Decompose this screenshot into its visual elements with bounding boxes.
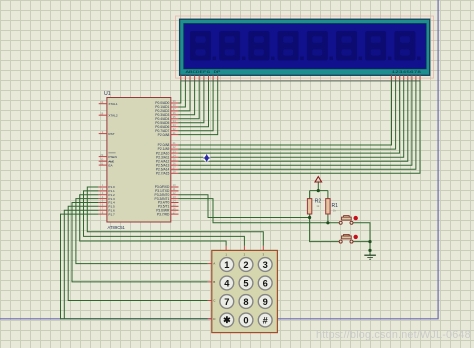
svg-text:5: 5: [243, 278, 248, 288]
svg-text:22: 22: [173, 145, 176, 149]
key ✱: [220, 313, 234, 327]
svg-text:P3.7/RD: P3.7/RD: [157, 212, 170, 216]
svg-text:23: 23: [173, 149, 176, 153]
push button 2 (to P3.2): [339, 234, 358, 243]
junction node: P3.2 / R2 / button2: [308, 216, 311, 219]
svg-text:AT89C51: AT89C51: [108, 225, 126, 230]
svg-text:17: 17: [173, 210, 176, 214]
svg-text:18: 18: [100, 111, 103, 115]
svg-text:16: 16: [173, 206, 176, 210]
svg-text:✱: ✱: [223, 315, 231, 325]
display ghost digits (faint 8.8.8... pattern): [190, 31, 421, 61]
display selection highlight box: [176, 16, 434, 78]
display pin stubs: [181, 75, 420, 79]
svg-text:26: 26: [173, 161, 176, 165]
svg-text:31: 31: [100, 161, 103, 165]
keypad row pin stubs (A-D): [208, 264, 212, 319]
svg-text:U1: U1: [104, 91, 111, 97]
power symbol VCC (up arrow): [315, 177, 322, 182]
ground symbol: [364, 255, 376, 259]
svg-text:1k: 1k: [333, 209, 337, 213]
wire: P3.2/INT0 to resistor R2 / button node: [179, 195, 310, 218]
wire: button2 output joining ground rail: [353, 241, 370, 243]
wire: R1 bottom to button1 (junction): [327, 214, 329, 223]
svg-text:P1.7: P1.7: [108, 212, 115, 216]
key 2: [239, 258, 253, 272]
svg-text:21: 21: [173, 141, 176, 145]
wire bus: P2.0-P2.7 to display digit select pins 1-8: [179, 79, 421, 173]
svg-text:29: 29: [100, 153, 103, 157]
svg-text:4: 4: [224, 278, 230, 288]
mcu PSEN/EA overlines: [108, 153, 115, 162]
svg-text:0: 0: [243, 315, 248, 325]
keypad body: [212, 250, 278, 332]
key 5: [239, 276, 253, 290]
svg-text:34: 34: [173, 119, 176, 123]
svg-text:36: 36: [173, 111, 176, 115]
resistor R2 body: [307, 199, 311, 214]
svg-text:8: 8: [243, 297, 248, 307]
key 8: [239, 295, 253, 309]
svg-text:#: #: [263, 315, 268, 325]
svg-text:3: 3: [263, 260, 268, 270]
key 6: [258, 276, 272, 290]
svg-text:33: 33: [173, 123, 176, 127]
wire: VCC rail to R1 R2 tops: [310, 181, 328, 198]
svg-text:24: 24: [173, 153, 176, 157]
svg-text:15: 15: [173, 203, 176, 207]
svg-text:27: 27: [173, 166, 176, 170]
display pin name labels (segment names and digit numbers): [186, 71, 422, 75]
svg-text:35: 35: [173, 115, 176, 119]
mcu right pin name labels: [155, 101, 170, 216]
key 3: [258, 258, 272, 272]
svg-text:XTAL1: XTAL1: [108, 102, 118, 106]
svg-text:10: 10: [173, 183, 176, 187]
mcu left pin numbers: [100, 100, 104, 214]
svg-text:14: 14: [173, 199, 176, 203]
mcu right pin stubs: [171, 103, 179, 214]
svg-text:19: 19: [100, 100, 103, 104]
svg-text:38: 38: [173, 103, 176, 107]
svg-text:A: A: [213, 262, 215, 266]
wire bus: P0.0-P0.7 to display segment pins A-DP: [179, 79, 218, 134]
svg-text:11: 11: [173, 187, 176, 191]
push button 1 (to P3.3): [339, 216, 358, 225]
key 0: [239, 313, 253, 327]
svg-text:12: 12: [173, 191, 176, 195]
svg-text:ABCDEFG DP: ABCDEFG DP: [186, 71, 221, 75]
mcu U1 AT89C51 body: [107, 98, 171, 223]
wire: P3.3/INT1 to resistor R1 / button node: [179, 199, 340, 223]
svg-text:PSEN: PSEN: [108, 155, 116, 159]
svg-text:13: 13: [173, 195, 176, 199]
mcu left pin name labels: [108, 102, 118, 216]
svg-text:XTAL2: XTAL2: [108, 113, 118, 117]
svg-text:12345678: 12345678: [392, 71, 422, 75]
key 9: [258, 295, 272, 309]
key #: [258, 313, 272, 327]
wire: R2 bottom down to button2: [310, 214, 340, 242]
blue origin marker on wire: [203, 154, 211, 162]
mcu left pin stubs: [99, 104, 107, 214]
svg-text:B: B: [213, 280, 215, 284]
svg-text:21: 21: [173, 131, 176, 135]
key 1: [220, 258, 234, 272]
key 4: [220, 276, 234, 290]
svg-text:39: 39: [173, 99, 176, 103]
svg-text:1k: 1k: [316, 204, 320, 208]
svg-text:9: 9: [263, 297, 268, 307]
wire: button1 output to ground rail: [353, 223, 370, 255]
svg-text:P2.7/A15: P2.7/A15: [156, 172, 170, 176]
junction node: P3.3 / R1 / button1: [326, 221, 329, 224]
junction node: button2 output / ground rail: [368, 240, 371, 243]
svg-text:37: 37: [173, 107, 176, 111]
svg-text:P2.0/A8: P2.0/A8: [158, 133, 170, 137]
svg-text:2: 2: [243, 260, 248, 270]
display DISP1 body (blue 8-digit 7-seg module, teal frame): [180, 19, 430, 75]
svg-text:32: 32: [173, 127, 176, 131]
svg-text:28: 28: [173, 170, 176, 174]
mcu right pin numbers: [173, 99, 176, 214]
svg-text:25: 25: [173, 157, 176, 161]
keypad column numbers: [225, 252, 264, 256]
resistor R1 body: [326, 199, 330, 214]
junction node: VCC rail: [317, 189, 320, 192]
svg-text:6: 6: [263, 278, 268, 288]
key 7: [220, 295, 234, 309]
junction node: ground pin: [368, 249, 371, 252]
svg-text:30: 30: [100, 157, 103, 161]
keypad column pin stubs (1-3): [226, 246, 263, 251]
wire bus: P1.0-P1.7 to keypad rows and columns: [61, 187, 264, 319]
svg-text:RST: RST: [108, 132, 114, 136]
wire: long horizontal under display pins: [181, 80, 420, 82]
display screen: [184, 24, 426, 69]
keypad row letters: [213, 262, 216, 321]
svg-text:1: 1: [224, 260, 229, 270]
svg-text:7: 7: [224, 297, 229, 307]
watermark text: [316, 329, 471, 341]
